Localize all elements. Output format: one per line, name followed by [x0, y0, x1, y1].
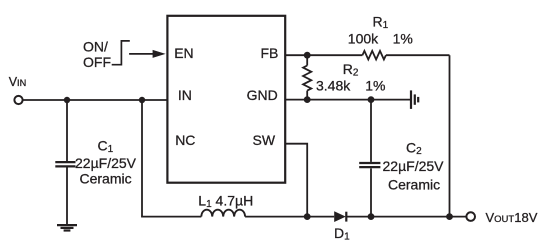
svg-text:100k: 100k — [348, 30, 379, 46]
svg-text:Ceramic: Ceramic — [388, 176, 440, 192]
svg-text:FB: FB — [261, 45, 279, 61]
svg-text:ON/: ON/ — [83, 39, 108, 55]
svg-text:22µF/25V: 22µF/25V — [75, 155, 137, 171]
svg-text:3.48k: 3.48k — [316, 78, 351, 94]
svg-text:OFF: OFF — [83, 54, 111, 70]
svg-text:1%: 1% — [365, 78, 385, 94]
svg-text:22µF/25V: 22µF/25V — [383, 158, 445, 174]
svg-text:VIN: VIN — [9, 75, 27, 89]
svg-text:IN: IN — [178, 87, 192, 103]
svg-text:GND: GND — [247, 87, 278, 103]
svg-text:Ceramic: Ceramic — [80, 171, 132, 187]
svg-text:1%: 1% — [393, 30, 413, 46]
svg-text:SW: SW — [253, 132, 276, 148]
svg-text:NC: NC — [175, 132, 195, 148]
svg-text:EN: EN — [174, 45, 193, 61]
